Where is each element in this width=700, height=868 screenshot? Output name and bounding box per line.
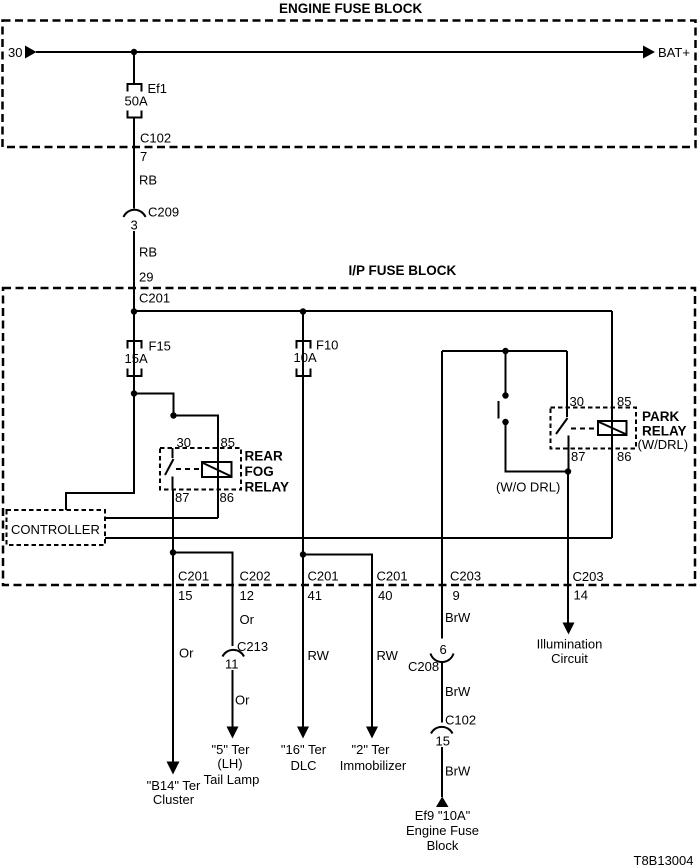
junction DLC/immobilizer (300, 551, 306, 557)
svg-text:RW: RW (377, 648, 399, 663)
fuse F15 value 15A (125, 351, 148, 366)
cluster arrow (167, 762, 180, 775)
svg-text:Engine Fuse: Engine Fuse (406, 823, 479, 838)
wire bus C201 to park relay drop (134, 310, 612, 312)
svg-text:BrW: BrW (445, 610, 471, 625)
svg-text:Or: Or (179, 646, 194, 661)
pin 86 label park (617, 449, 631, 464)
wire park relay 30 (566, 351, 568, 408)
wire label Or cluster (179, 646, 194, 661)
svg-text:Immobilizer: Immobilizer (340, 758, 407, 773)
node BAT+ arrow (643, 46, 655, 59)
svg-text:RELAY: RELAY (245, 480, 290, 495)
svg-text:(W/O DRL): (W/O DRL) (496, 480, 560, 495)
svg-text:RB: RB (139, 173, 157, 188)
wire label RB (139, 173, 157, 188)
wire label BrW middle (445, 684, 471, 699)
wire label RW DLC (308, 648, 330, 663)
wire label Or tail lamp lower (235, 693, 250, 708)
fuse F15 (128, 341, 142, 376)
svg-text:C202: C202 (240, 569, 271, 584)
fuse F10 label (316, 338, 338, 353)
wire label RB (139, 245, 157, 260)
wire C208 to C102 (441, 661, 443, 723)
svg-text:C201: C201 (139, 291, 170, 306)
fuse F15 label (149, 339, 171, 354)
wire Ef1 to C209 (133, 118, 135, 209)
svg-text:Ef9 "10A": Ef9 "10A" (415, 808, 471, 823)
svg-text:86: 86 (220, 490, 234, 505)
svg-text:"2" Ter: "2" Ter (352, 742, 391, 757)
fuse Ef1 label (148, 81, 168, 96)
wire branch to immobilizer (303, 555, 372, 727)
rear fog relay coil (202, 462, 232, 477)
junction W/O DRL tap (502, 348, 508, 354)
fuse Ef1 (128, 84, 142, 118)
wire label RW immobilizer (377, 648, 399, 663)
wire BrW feed (441, 351, 443, 639)
wire W/O DRL to 87 node (506, 422, 569, 472)
svg-text:C102: C102 (445, 713, 476, 728)
connector C213 (223, 650, 245, 657)
connector C201 pin 40 labels (377, 569, 408, 604)
svg-text:87: 87 (571, 449, 585, 464)
svg-text:15: 15 (436, 734, 450, 749)
pin 85 label park (617, 394, 631, 409)
pin 29 label (139, 270, 153, 285)
park relay box (551, 408, 637, 449)
junction rear fog 30/85 tap (170, 412, 176, 418)
immobilizer arrow (366, 727, 378, 739)
connector C208 label (408, 659, 439, 674)
wire label Or tail lamp upper (240, 612, 255, 627)
svg-text:BrW: BrW (445, 684, 471, 699)
svg-text:RB: RB (139, 245, 157, 260)
tail lamp arrow (227, 727, 239, 739)
CONTROLLER label (11, 522, 100, 537)
wire relay 86 to controller (105, 537, 612, 539)
svg-text:(LH): (LH) (217, 756, 242, 771)
svg-text:"5" Ter: "5" Ter (212, 742, 251, 757)
I/P fuse block dashed box (3, 288, 695, 585)
pin 87 label rear fog (175, 490, 189, 505)
connector C201 pin 41 labels (308, 569, 339, 604)
wire bus to F10 (302, 311, 304, 341)
connector C213 label (237, 639, 268, 654)
wire label BrW upper (445, 610, 471, 625)
svg-text:14: 14 (574, 588, 588, 603)
svg-text:9: 9 (453, 588, 460, 603)
connector C102 label (445, 713, 476, 728)
wire park relay 30 bus (442, 350, 567, 352)
rear fog relay switch (165, 448, 174, 490)
"B14" Ter Cluster label (147, 778, 201, 807)
wire to illumination (567, 472, 569, 624)
svg-text:87: 87 (175, 490, 189, 505)
rear fog relay coil link (176, 468, 202, 470)
svg-text:I/P FUSE BLOCK: I/P FUSE BLOCK (349, 263, 457, 278)
svg-text:BrW: BrW (445, 764, 471, 779)
pin 3 label (131, 218, 138, 233)
W/O DRL switch (499, 392, 509, 425)
Ef9 10A Engine Fuse Block label (406, 808, 479, 853)
svg-text:T8B13004: T8B13004 (634, 853, 694, 868)
(W/O DRL) label (496, 480, 560, 495)
svg-text:50A: 50A (125, 94, 148, 109)
svg-text:BAT+: BAT+ (658, 45, 690, 60)
wire rear fog 86 to controller (105, 517, 218, 519)
controller box (7, 510, 106, 545)
connector C203 pin 14 labels (573, 569, 604, 603)
svg-text:"16" Ter: "16" Ter (281, 742, 327, 757)
svg-text:DLC: DLC (290, 758, 316, 773)
fuse F10 value 10A (294, 350, 317, 365)
engine fuse block dashed box (3, 21, 696, 148)
park relay switch (556, 408, 569, 449)
pin 85 label rear fog (221, 435, 235, 450)
svg-text:C209: C209 (148, 205, 179, 220)
svg-text:ENGINE FUSE BLOCK: ENGINE FUSE BLOCK (279, 1, 423, 16)
junction 87 / W-O DRL (565, 468, 571, 474)
svg-text:FOG: FOG (245, 464, 274, 479)
I/P FUSE BLOCK title (349, 263, 457, 278)
wire label BrW lower (445, 764, 471, 779)
svg-text:CONTROLLER: CONTROLLER (11, 522, 100, 537)
svg-text:REAR: REAR (245, 449, 284, 464)
pin 30 label rear fog (177, 435, 191, 450)
node 30 label (8, 45, 22, 60)
wire F10 down to DLC branch (302, 341, 304, 555)
wire to W/O DRL switch (505, 351, 507, 396)
wire F15 to controller (66, 394, 134, 511)
node 30 arrow (25, 46, 37, 59)
svg-text:Ef1: Ef1 (148, 81, 168, 96)
connector C202 pin 12 labels (240, 569, 271, 604)
illumination arrow (563, 623, 575, 635)
Ef9 source arrow (436, 797, 449, 808)
svg-text:29: 29 (139, 270, 153, 285)
junction at fuse Ef1 tap (131, 49, 137, 55)
svg-text:7: 7 (140, 149, 147, 164)
svg-text:Or: Or (235, 693, 250, 708)
svg-text:C102: C102 (140, 131, 171, 146)
svg-text:15: 15 (178, 588, 192, 603)
svg-text:Tail Lamp: Tail Lamp (204, 772, 260, 787)
"5" Ter (LH) Tail Lamp label (204, 742, 260, 787)
pin 15 label (436, 734, 450, 749)
svg-text:Illumination: Illumination (537, 637, 603, 652)
wire park 87 down (568, 449, 570, 472)
svg-text:41: 41 (308, 588, 322, 603)
wire C209 to C201 (133, 231, 135, 311)
svg-text:Circuit: Circuit (551, 651, 588, 666)
connector C209 label (148, 205, 179, 220)
svg-text:11: 11 (225, 657, 239, 672)
pin 7 label (140, 149, 147, 164)
park relay coil link (571, 428, 598, 430)
Illumination Circuit label (537, 637, 603, 667)
wire F15 to rear fog relay 30 (134, 394, 174, 416)
svg-text:"B14" Ter: "B14" Ter (147, 778, 201, 793)
wire bus to F15 (133, 311, 135, 394)
svg-text:F15: F15 (149, 339, 171, 354)
svg-text:RW: RW (308, 648, 330, 663)
svg-text:C203: C203 (573, 569, 604, 584)
wire 30 to BAT+ (36, 51, 643, 53)
ENGINE FUSE BLOCK title (279, 1, 423, 16)
connector C102 label (140, 131, 171, 146)
connector C209 (124, 210, 146, 217)
svg-text:6: 6 (440, 642, 447, 657)
"16" Ter DLC label (281, 742, 327, 773)
svg-text:C201: C201 (308, 569, 339, 584)
park relay coil (598, 421, 627, 435)
svg-text:C201: C201 (377, 569, 408, 584)
svg-text:Block: Block (427, 838, 459, 853)
"2" Ter Immobilizer label (340, 742, 407, 773)
svg-text:10A: 10A (294, 350, 317, 365)
wire to DLC (302, 555, 304, 727)
DLC arrow (297, 727, 309, 739)
connector C102 (431, 727, 453, 734)
REAR FOG RELAY label (245, 449, 290, 495)
wire to rear fog relay 85 (174, 416, 219, 519)
wire park relay coil drop (611, 311, 613, 538)
connector C201 pin 15 labels (178, 569, 209, 604)
svg-text:C201: C201 (178, 569, 209, 584)
svg-text:40: 40 (378, 588, 392, 603)
wire branch to tail lamp (173, 553, 233, 647)
svg-text:C203: C203 (450, 569, 481, 584)
pin 11 label (225, 657, 239, 672)
svg-text:15A: 15A (125, 351, 148, 366)
svg-text:Or: Or (240, 612, 255, 627)
svg-text:PARK: PARK (642, 409, 680, 424)
pin 6 label (440, 642, 447, 657)
svg-text:3: 3 (131, 218, 138, 233)
junction bus at F10 (300, 308, 306, 314)
wire junction to fuse Ef1 (133, 52, 135, 83)
fuse F10 (297, 341, 311, 376)
wire rear fog 87 down (172, 490, 174, 553)
wire to cluster (172, 553, 174, 763)
junction bus at F15 (131, 308, 137, 314)
diagram number T8B13004 (634, 853, 694, 868)
connector C208 (431, 654, 454, 663)
wire C102 to Ef9 (441, 747, 443, 797)
node BAT+ label (658, 45, 690, 60)
svg-text:(W/DRL): (W/DRL) (638, 437, 689, 452)
svg-text:30: 30 (8, 45, 22, 60)
connector C203 pin 9 labels (450, 569, 481, 604)
svg-text:F10: F10 (316, 338, 338, 353)
junction cluster branch (170, 549, 176, 555)
fuse Ef1 value 50A (125, 94, 148, 109)
connector C201 label (139, 291, 170, 306)
pin 86 label rear fog (220, 490, 234, 505)
wire C213 to tail lamp (232, 670, 234, 727)
svg-text:Cluster: Cluster (153, 792, 195, 807)
pin 30 label park (570, 394, 584, 409)
PARK RELAY label (638, 409, 689, 452)
junction below F15 (131, 390, 137, 396)
svg-text:C208: C208 (408, 659, 439, 674)
pin 87 label park (571, 449, 585, 464)
svg-text:86: 86 (617, 449, 631, 464)
svg-text:12: 12 (240, 588, 254, 603)
rear fog relay box (160, 448, 241, 490)
